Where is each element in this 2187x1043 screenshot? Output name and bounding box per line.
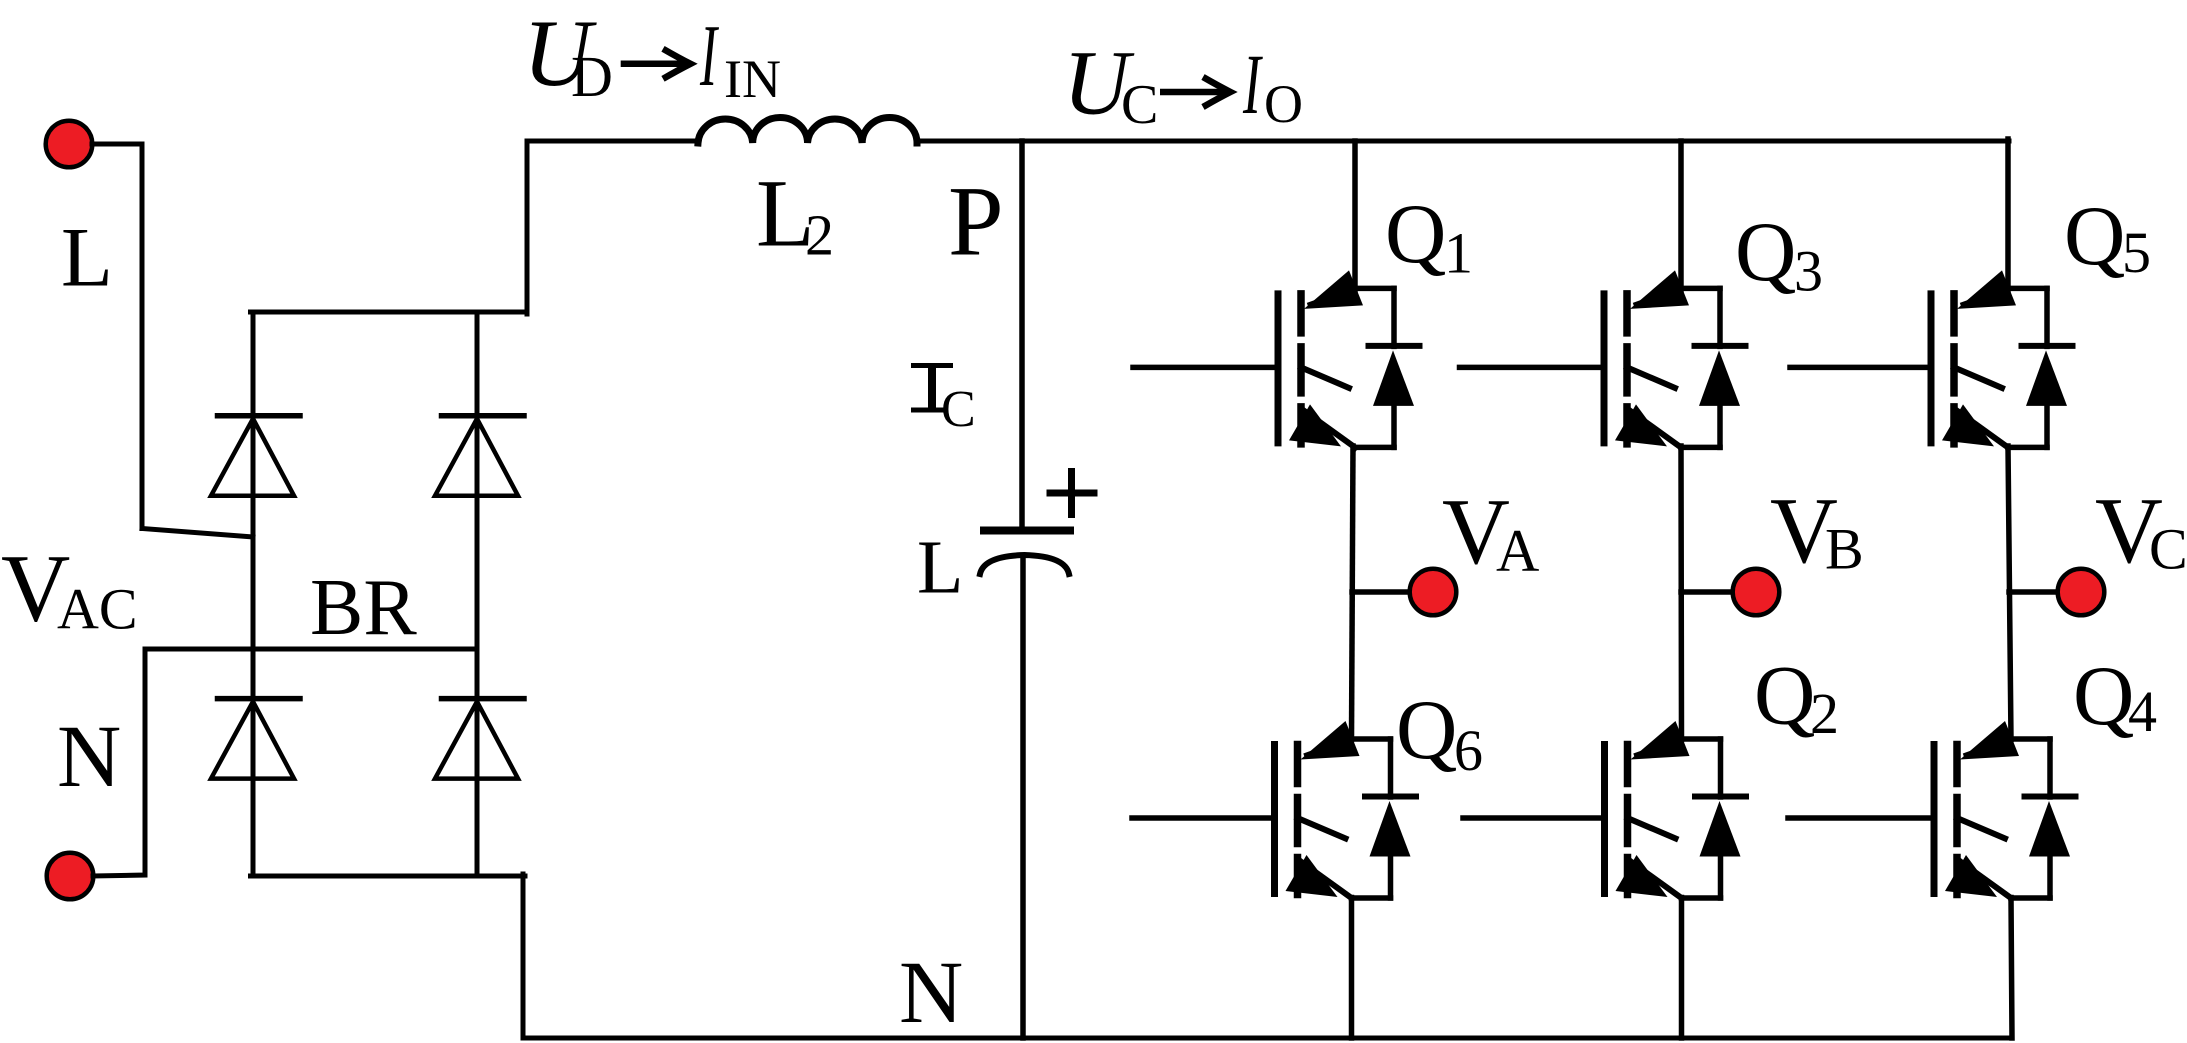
transistor Q5 — [1931, 270, 2073, 447]
wire bridge minus down — [521, 874, 526, 1038]
svg-text:I: I — [699, 7, 719, 105]
svg-text:D: D — [571, 44, 613, 109]
svg-text:Q: Q — [1754, 649, 1815, 743]
wire Q1 gate lead — [1133, 365, 1278, 371]
wire bridge left leg — [251, 312, 256, 876]
svg-text:P: P — [948, 166, 1004, 277]
wire top rail — [921, 139, 2009, 144]
diode BR lower left — [211, 699, 300, 779]
svg-text:4: 4 — [2128, 679, 2157, 744]
svg-text:Q: Q — [2064, 189, 2125, 283]
wire L terminal to corner — [92, 144, 142, 529]
svg-text:Q: Q — [1385, 187, 1446, 281]
svg-text:N: N — [899, 944, 963, 1042]
svg-text:3: 3 — [1794, 239, 1823, 304]
diode BR lower right — [435, 699, 524, 779]
svg-text:BR: BR — [310, 564, 417, 652]
wire Q5 drain — [2005, 139, 2011, 290]
node VC — [2058, 569, 2105, 616]
diode BR upper right — [435, 416, 524, 496]
svg-text:1: 1 — [1444, 220, 1473, 285]
node N terminal — [47, 853, 94, 900]
wire stub VA — [1352, 589, 1408, 595]
transistor Q2 — [1605, 721, 1747, 898]
wire bridge bottom rail — [251, 874, 526, 879]
svg-text:2: 2 — [1810, 681, 1839, 746]
wire stub VC — [2009, 589, 2056, 595]
svg-text:B: B — [1825, 517, 1864, 582]
wire Q5 gate lead — [1790, 365, 1931, 371]
svg-text:L: L — [61, 211, 113, 305]
svg-text:Q: Q — [2073, 649, 2134, 743]
wire Q6 source — [1349, 898, 1355, 1039]
inductor L2 — [698, 118, 917, 143]
capacitor C curved plate — [980, 555, 1069, 574]
wire phase leg A — [1352, 446, 1354, 740]
transistor Q4 — [1934, 721, 2076, 898]
node VB — [1733, 569, 1780, 616]
wire capacitor top — [1019, 141, 1025, 528]
svg-text:2: 2 — [805, 203, 834, 268]
svg-text:IN: IN — [724, 49, 781, 109]
svg-text:I: I — [1242, 37, 1263, 132]
wire bridge right leg — [475, 312, 480, 876]
plus sign of capacitor — [1050, 490, 1094, 497]
node VA — [1410, 569, 1457, 616]
svg-text:5: 5 — [2122, 220, 2151, 285]
svg-text:N: N — [57, 708, 121, 806]
wire Q1 drain — [1352, 141, 1358, 290]
wire Q6 gate lead — [1132, 815, 1275, 821]
svg-text:C: C — [1121, 74, 1158, 136]
wire phase leg C — [2008, 446, 2011, 740]
svg-text:Q: Q — [1735, 205, 1796, 299]
svg-text:C: C — [941, 381, 976, 438]
svg-text:L: L — [917, 525, 963, 609]
diode BR upper left — [211, 416, 300, 496]
transistor Q1 — [1278, 270, 1420, 447]
wire Q2 gate lead — [1463, 815, 1605, 821]
transistor Q6 — [1275, 721, 1417, 898]
wire L input to bridge midpoint — [142, 529, 253, 538]
wire N terminal up to bridge — [93, 649, 477, 876]
svg-text:6: 6 — [1454, 718, 1483, 783]
svg-text:AC: AC — [57, 576, 138, 641]
wire Q3 drain — [1678, 141, 1684, 290]
wire bottom rail — [523, 1036, 2012, 1041]
wire stub VB — [1681, 589, 1731, 595]
node L terminal — [46, 121, 93, 168]
wire Q2 source — [1679, 898, 1685, 1039]
wire Q4 source — [2011, 898, 2012, 1039]
svg-text:O: O — [1264, 74, 1303, 134]
wire riser bridge plus to top — [525, 141, 530, 314]
wire top left to inductor — [527, 139, 699, 144]
capacitor C plus plate — [984, 527, 1070, 535]
svg-text:Q: Q — [1396, 683, 1457, 777]
svg-text:C: C — [2149, 517, 2187, 582]
wire Q3 gate lead — [1460, 365, 1605, 371]
transistor Q3 — [1604, 270, 1746, 447]
label IC — [911, 364, 953, 411]
wire capacitor bottom — [1020, 557, 1026, 1038]
wire bridge top rail — [251, 310, 528, 315]
wire phase leg B — [1678, 446, 1684, 740]
svg-text:A: A — [1496, 518, 1539, 584]
wire Q4 gate lead — [1788, 815, 1934, 821]
